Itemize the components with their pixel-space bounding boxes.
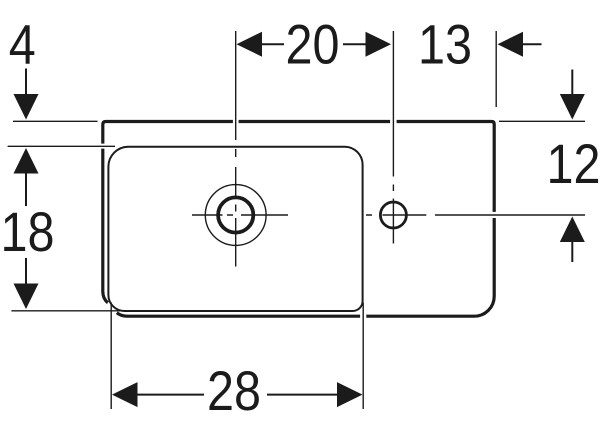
extension line top-left (dim 4 upper) — [13, 120, 98, 122]
drain hole outer circle — [205, 185, 266, 246]
extension line left (dim 18 lower) — [11, 310, 120, 312]
outer basin outline — [103, 122, 494, 317]
dim 28 right arrow — [267, 394, 337, 396]
inner basin outline — [108, 147, 362, 311]
dim 28 left arrow — [112, 382, 138, 407]
dim 12 arrow down — [571, 70, 573, 97]
tap hole circle — [380, 202, 406, 228]
drain horizontal centerline — [192, 214, 288, 216]
svg-text:12: 12 — [547, 134, 600, 196]
dim 28 left extension line — [110, 303, 112, 410]
drain vertical centerline — [235, 31, 237, 267]
dim 13 right arrow — [498, 32, 524, 57]
svg-text:4: 4 — [9, 15, 36, 77]
drain hole inner circle — [218, 197, 253, 232]
dim 28 right extension line — [362, 303, 364, 410]
svg-text:20: 20 — [286, 15, 340, 77]
dim 18 arrow down — [25, 258, 27, 284]
extension line right of 13 — [495, 31, 497, 107]
tap hole vertical centerline — [392, 31, 394, 244]
dim 4 arrow down — [25, 69, 27, 97]
svg-text:13: 13 — [418, 15, 472, 77]
svg-text:18: 18 — [1, 202, 55, 264]
svg-text:28: 28 — [207, 361, 261, 423]
dim 20 left arrow — [237, 32, 263, 57]
tap hole horizontal centerline — [366, 214, 585, 216]
dim 12 arrow up — [560, 217, 585, 243]
extension line left (dim 4 lower / 18 upper) — [8, 145, 115, 147]
dim 12 extension line top — [499, 120, 585, 122]
dim 18 arrow up — [14, 148, 39, 174]
dim 20 right arrow — [343, 43, 366, 45]
